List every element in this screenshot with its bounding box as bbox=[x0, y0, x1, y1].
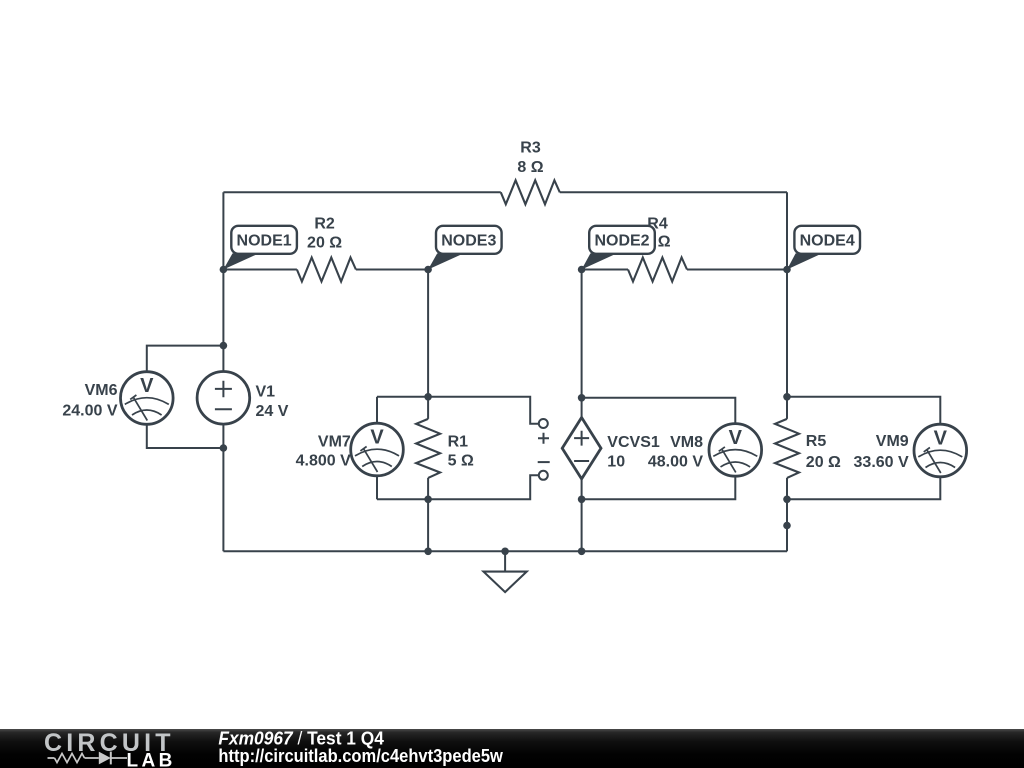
junction dot R5 column extra bbox=[783, 522, 791, 530]
wire right column upper bbox=[786, 192, 788, 419]
vcvs VCVS1 bbox=[562, 418, 601, 479]
svg-text:VCVS1: VCVS1 bbox=[607, 434, 660, 451]
junction dot VCVS bottom bbox=[578, 496, 586, 504]
logo mini resistor bbox=[55, 754, 85, 763]
junction dot bottom rail ground bbox=[501, 548, 509, 556]
wire VM7 top stub bbox=[376, 397, 378, 423]
wire NODE3 column upper bbox=[427, 270, 429, 419]
svg-text:8 Ω: 8 Ω bbox=[517, 159, 543, 176]
wire NODE2 column upper bbox=[581, 270, 583, 418]
svg-text:R5: R5 bbox=[806, 433, 827, 450]
svg-text:http://circuitlab.com/c4ehvt3p: http://circuitlab.com/c4ehvt3pede5w bbox=[218, 745, 503, 766]
svg-text:20 Ω: 20 Ω bbox=[307, 235, 342, 252]
resistor R4 bbox=[628, 258, 687, 282]
svg-text:NODE2: NODE2 bbox=[594, 232, 649, 249]
wire ground stub bbox=[504, 551, 506, 571]
wire node row 1: NODE1 to R2 bbox=[223, 269, 297, 271]
voltage source V1 bbox=[197, 372, 250, 425]
wire top rail right segment bbox=[560, 191, 787, 193]
wire R4 to NODE4 bbox=[687, 269, 787, 271]
junction dot VM6 top tap bbox=[220, 342, 228, 350]
wire top rail left segment bbox=[223, 191, 500, 193]
ground bbox=[484, 572, 527, 593]
junction dot R5 top bbox=[783, 393, 791, 401]
terminal plus sign bbox=[538, 433, 549, 444]
svg-text:48.00 V: 48.00 V bbox=[648, 454, 703, 471]
junction dot NODE3 bbox=[424, 266, 432, 274]
svg-text:10: 10 bbox=[607, 454, 625, 471]
svg-text:24 V: 24 V bbox=[256, 403, 289, 420]
svg-text:NODE3: NODE3 bbox=[441, 232, 496, 249]
node flag NODE1 bbox=[223, 226, 297, 270]
junction dot VM6 bottom tap bbox=[220, 444, 228, 452]
terminal minus sign bbox=[538, 461, 550, 463]
wire R2 to NODE3 bbox=[356, 269, 428, 271]
wire NODE3 column lower bbox=[427, 478, 429, 551]
logo mini diode cathode bbox=[110, 752, 112, 765]
resistor R1 bbox=[416, 419, 440, 478]
svg-text:NODE1: NODE1 bbox=[237, 232, 292, 249]
svg-text:R3: R3 bbox=[520, 140, 541, 157]
wire VM7 bottom stub bbox=[376, 476, 378, 500]
junction dot NODE2 bbox=[578, 266, 586, 274]
svg-text:4.800 V: 4.800 V bbox=[296, 453, 351, 470]
logo mini diode bbox=[99, 752, 111, 765]
junction dot NODE1 bbox=[220, 266, 228, 274]
svg-text:VM9: VM9 bbox=[876, 433, 909, 450]
resistor R2 bbox=[297, 258, 356, 282]
voltmeter VM7 bbox=[351, 423, 404, 476]
wire NODE2 column lower bbox=[581, 479, 583, 551]
wire R5 cluster top rail bbox=[787, 397, 940, 424]
voltmeter VM6 bbox=[121, 372, 174, 425]
terminal + port bbox=[539, 419, 548, 428]
resistor R3 bbox=[501, 180, 560, 204]
junction dot bottom rail R1 bbox=[424, 548, 432, 556]
svg-text:VM6: VM6 bbox=[85, 382, 118, 399]
junction dot R1 bottom bbox=[424, 496, 432, 504]
wire node row 2: NODE2 to R4 bbox=[582, 269, 628, 271]
resistor R5 bbox=[775, 419, 799, 478]
svg-text:5 Ω: 5 Ω bbox=[448, 453, 474, 470]
wire right column lower bbox=[786, 478, 788, 551]
svg-text:NODE4: NODE4 bbox=[800, 232, 855, 249]
node flag NODE4 bbox=[787, 226, 860, 270]
wire VM6 top branch bbox=[147, 346, 224, 372]
junction dot bottom rail VCVS bbox=[578, 548, 586, 556]
wire VM6 bottom branch bbox=[147, 424, 224, 448]
wire R1 cluster top rail bbox=[377, 397, 539, 424]
svg-text:R2: R2 bbox=[314, 216, 335, 233]
svg-text:R1: R1 bbox=[448, 434, 469, 451]
svg-text:33.60 V: 33.60 V bbox=[854, 454, 909, 471]
wire left column lower bbox=[222, 424, 224, 551]
svg-text:VM8: VM8 bbox=[670, 434, 703, 451]
wire R1 cluster bottom rail bbox=[377, 475, 539, 499]
junction dot NODE4 bbox=[783, 266, 791, 274]
logo mini schematic wire bbox=[48, 757, 128, 759]
node flag NODE3 bbox=[428, 226, 502, 270]
svg-text:V1: V1 bbox=[256, 384, 276, 401]
wire left column upper bbox=[222, 192, 224, 371]
svg-text:24.00 V: 24.00 V bbox=[62, 403, 117, 420]
node flag NODE2 bbox=[582, 226, 655, 270]
voltmeter VM9 bbox=[914, 424, 967, 477]
svg-text:VM7: VM7 bbox=[318, 434, 351, 451]
terminal - port bbox=[539, 471, 548, 480]
junction dot R5 bottom bbox=[783, 496, 791, 504]
wire VCVS cluster top rail bbox=[582, 398, 736, 424]
wire bottom rail bbox=[223, 550, 787, 552]
svg-text:20 Ω: 20 Ω bbox=[806, 454, 841, 471]
footer bar bbox=[0, 729, 1024, 768]
svg-text:LAB: LAB bbox=[127, 751, 176, 768]
junction dot VCVS top bbox=[578, 394, 586, 402]
junction dot NODE3-R1 top bbox=[424, 393, 432, 401]
wire R5 cluster bottom rail bbox=[787, 477, 940, 500]
wire VCVS cluster bottom rail bbox=[582, 476, 736, 499]
voltmeter VM8 bbox=[709, 424, 762, 477]
